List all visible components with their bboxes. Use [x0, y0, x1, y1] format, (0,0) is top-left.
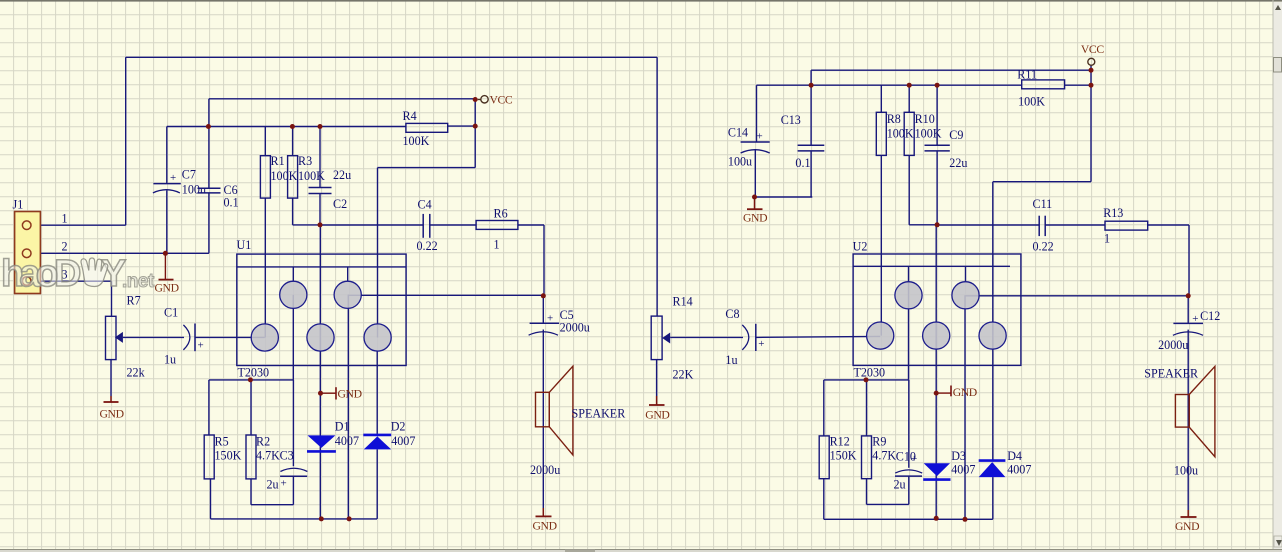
svg-text:GND: GND: [645, 409, 669, 422]
power port VCC left: [473, 93, 513, 106]
label R12: [830, 435, 850, 449]
scrollbar thumb: [1274, 58, 1282, 73]
label C5: [560, 308, 574, 322]
wire C1 to U1 pad1: [195, 336, 265, 338]
label C12: [1200, 309, 1220, 323]
wire R2 bottom to C3: [251, 476, 293, 504]
svg-text:SPEAKER: SPEAKER: [1144, 367, 1199, 381]
svg-text:+: +: [757, 131, 763, 143]
svg-text:R1: R1: [271, 154, 285, 168]
speaker right: [1175, 366, 1215, 456]
svg-text:GND: GND: [1175, 520, 1199, 533]
label T2030 right: [854, 366, 886, 380]
svg-text:C9: C9: [949, 128, 963, 142]
capacitor C4: [423, 214, 430, 238]
label R8: [887, 112, 901, 126]
value 0.1: [224, 196, 239, 210]
value 1u C8: [725, 353, 737, 367]
svg-text:+: +: [547, 313, 553, 325]
ground under R14: [645, 396, 669, 422]
wire 100K bias rail y126: [167, 126, 406, 128]
svg-text:U1: U1: [237, 238, 252, 252]
label D4: [1007, 449, 1022, 463]
value 0.22 C11: [1033, 240, 1054, 254]
svg-text:R6: R6: [494, 207, 508, 221]
svg-text:100K: 100K: [271, 169, 298, 183]
wire R9 top: [866, 380, 868, 436]
svg-text:C1: C1: [164, 306, 178, 320]
ground under speaker right: [1175, 510, 1199, 533]
bottom window border: [0, 549, 1282, 552]
resistor R5: [204, 435, 214, 479]
wire C11 to R13: [1045, 224, 1105, 226]
label C11: [1033, 197, 1053, 211]
ground pin U1: [318, 387, 362, 400]
wire R3 top: [292, 127, 294, 156]
wire VCC rail right lower: [757, 85, 1022, 142]
capacitor C12: [1173, 313, 1203, 335]
svg-text:100u: 100u: [728, 155, 752, 169]
power port VCC right: [1081, 43, 1104, 65]
svg-text:U2: U2: [853, 240, 868, 254]
wire C12 to speaker to GND: [1187, 296, 1189, 510]
svg-text:SPEAKER: SPEAKER: [572, 407, 627, 421]
svg-text:22u: 22u: [333, 168, 351, 182]
value 22u C9: [949, 156, 967, 170]
svg-text:T2030: T2030: [854, 366, 886, 380]
label J1: [13, 198, 24, 212]
svg-text:GND: GND: [155, 282, 179, 295]
label R2: [256, 435, 270, 449]
svg-text:C3: C3: [280, 449, 294, 463]
svg-text:C11: C11: [1033, 197, 1053, 211]
label C10: [896, 450, 916, 464]
value 1 R6: [494, 238, 500, 252]
value 150K: [215, 449, 242, 463]
wire J1 pin 3: [41, 281, 112, 316]
ground under speaker left: [533, 508, 557, 533]
label C7: [182, 168, 196, 182]
resistor R3: [288, 156, 298, 198]
junction rail R10: [907, 83, 912, 88]
wire R1 bottom to U1 pad: [264, 198, 266, 337]
svg-text:C4: C4: [418, 198, 432, 212]
svg-text:4.7K: 4.7K: [256, 449, 280, 463]
svg-text:VCC: VCC: [490, 93, 513, 106]
label C2: [333, 197, 347, 211]
label SPEAKER left: [572, 407, 627, 421]
junction T2030 R9: [864, 377, 869, 382]
svg-text:GND: GND: [533, 520, 557, 533]
svg-text:R13: R13: [1103, 206, 1123, 220]
wire VCC rail right upper: [811, 70, 1091, 85]
svg-text:+: +: [758, 338, 764, 350]
junction rail C6: [206, 124, 211, 129]
svg-text:GND: GND: [953, 386, 977, 399]
junction C2 node: [318, 222, 323, 227]
label C6: [224, 183, 238, 197]
junction bottom D3: [934, 516, 939, 521]
svg-text:C7: C7: [182, 168, 196, 182]
svg-text:100K: 100K: [298, 169, 325, 183]
ground pin U2: [934, 386, 977, 400]
wire top rail J1 pin1 to R14: [126, 57, 657, 316]
value 4007 D2: [391, 434, 415, 448]
junction bottom pad4 right: [963, 517, 968, 522]
potentiometer R14: [651, 316, 670, 360]
wire bottom rail left: [211, 479, 378, 519]
svg-text:100K: 100K: [1018, 95, 1045, 109]
svg-text:J1: J1: [13, 198, 24, 212]
ground under C14: [743, 195, 767, 225]
resistor R8: [876, 112, 886, 155]
wire U1 pad4 to output node: [348, 294, 544, 296]
wire U2 pad4 down: [964, 295, 966, 519]
svg-text:1: 1: [494, 238, 500, 252]
svg-text:4007: 4007: [391, 434, 415, 448]
value 100K R1: [271, 169, 298, 183]
resistor R13: [1105, 221, 1148, 230]
wire J1 pin 2: [41, 252, 209, 254]
capacitor C10: [895, 470, 922, 476]
svg-text:R3: R3: [298, 154, 312, 168]
wire R3 bottom: [293, 198, 320, 225]
resistor R12: [819, 436, 829, 479]
wire C5 to speaker to GND: [542, 296, 544, 508]
svg-text:GND: GND: [743, 212, 767, 225]
wire C14 bottom: [755, 149, 813, 197]
value 2u C3: [267, 478, 279, 492]
svg-text:1: 1: [62, 212, 68, 226]
svg-text:1u: 1u: [725, 353, 737, 367]
watermark haoDIY.net: [1, 253, 155, 295]
connector J1: [15, 212, 41, 294]
label R4: [403, 109, 417, 123]
scrollbar up arrow: [1275, 5, 1281, 10]
svg-text:GND: GND: [100, 408, 124, 421]
junction rail C9: [935, 83, 940, 88]
value 1u: [164, 353, 176, 367]
wire VCC down zigzag to U1 pad5: [378, 100, 476, 338]
svg-text:100K: 100K: [915, 127, 942, 141]
label R14: [673, 295, 693, 309]
svg-text:D1: D1: [335, 420, 350, 434]
svg-text:1: 1: [1104, 232, 1110, 246]
value 1 R13: [1104, 232, 1110, 246]
wire R13 to C12 node: [1148, 225, 1189, 296]
svg-text:22u: 22u: [949, 156, 967, 170]
wire C9 bottom / output node right: [937, 151, 1039, 225]
svg-text:2u: 2u: [894, 477, 906, 491]
svg-text:0.22: 0.22: [417, 239, 438, 253]
wire R10 bottom: [909, 155, 937, 224]
capacitor C7: [153, 172, 181, 193]
junction R4 right: [473, 124, 478, 129]
label U2: [853, 240, 868, 254]
svg-text:+: +: [281, 478, 287, 490]
wire C2 bottom / output node: [320, 194, 423, 226]
wire U1 pad4 stub: [347, 267, 349, 281]
speaker left: [536, 366, 573, 455]
value 22K: [673, 368, 694, 382]
svg-text:R9: R9: [872, 435, 886, 449]
svg-text:4007: 4007: [1007, 463, 1031, 477]
svg-text:R2: R2: [256, 435, 270, 449]
wire VCC rail left: [209, 99, 475, 127]
svg-text:C8: C8: [725, 307, 739, 321]
wire C13 vertical: [810, 85, 812, 197]
svg-text:VCC: VCC: [1081, 43, 1104, 56]
label R13: [1103, 206, 1123, 220]
wire U2 pad4 to C12 node: [966, 295, 1189, 297]
wire C7 top: [166, 127, 168, 184]
svg-text:R11: R11: [1017, 67, 1037, 81]
ground under J1 pin2: [155, 251, 179, 295]
capacitor C6: [198, 188, 221, 193]
value 100K R10: [915, 127, 942, 141]
svg-text:T2030: T2030: [238, 366, 270, 380]
wire R14 wiper to C8: [670, 336, 743, 338]
pin number 2: [62, 240, 68, 254]
svg-text:22k: 22k: [127, 366, 146, 380]
svg-text:GND: GND: [338, 388, 362, 401]
svg-text:haoD: haoD: [1, 253, 80, 295]
value 100u C14: [728, 155, 752, 169]
label C3: [280, 449, 294, 463]
wire U2 pad2 vertical through D3: [935, 225, 937, 519]
label R3: [298, 154, 312, 168]
wire C9 top: [936, 85, 938, 145]
junction bottom D1: [319, 516, 324, 521]
value 100K R3: [298, 169, 325, 183]
value 0.22: [417, 239, 438, 253]
capacitor C5: [529, 313, 560, 336]
svg-text:150K: 150K: [830, 448, 857, 462]
capacitor C9: [925, 145, 950, 151]
top window border: [0, 0, 1282, 2]
label R9: [872, 435, 886, 449]
svg-text:100u: 100u: [182, 183, 206, 197]
wire U1 pad2 vertical through D1: [319, 225, 321, 519]
capacitor C13: [798, 145, 825, 151]
svg-text:R10: R10: [915, 112, 935, 126]
label R1: [271, 154, 285, 168]
potentiometer R7: [106, 316, 123, 359]
svg-text:0.1: 0.1: [795, 156, 810, 170]
svg-text:R12: R12: [830, 435, 850, 449]
svg-text:D2: D2: [391, 420, 406, 434]
wire zigzag to U2 pad5: [993, 182, 1091, 336]
wire C10 top: [908, 380, 910, 468]
wire U1 pad3 stub: [292, 267, 294, 281]
value 2000u C5: [560, 321, 590, 335]
resistor R4: [406, 123, 448, 132]
value 2u C10: [894, 477, 906, 491]
junction rail R3: [290, 124, 295, 129]
svg-text:C13: C13: [781, 113, 801, 127]
wire J1 pin 1: [41, 224, 126, 226]
capacitor C11: [1039, 216, 1045, 236]
svg-text:22K: 22K: [673, 368, 694, 382]
resistor R1: [260, 156, 270, 198]
junction rail C13: [809, 83, 814, 88]
label C9: [949, 128, 963, 142]
wire C2 top: [319, 127, 321, 188]
capacitor C1: [183, 324, 203, 352]
svg-text:C12: C12: [1200, 309, 1220, 323]
value 4007 D3: [951, 463, 975, 477]
wire R8 bottom to U2 pad1b: [880, 155, 882, 335]
wire R4 right to VCC: [448, 125, 476, 127]
junction C12 node: [1186, 293, 1191, 298]
pin number 1: [62, 212, 68, 226]
wire C7 bottom: [166, 191, 168, 254]
wire C4 to R6: [430, 224, 476, 226]
label C14: [728, 126, 748, 140]
pin number 3: [62, 268, 68, 282]
value 22u C2: [333, 168, 351, 182]
svg-text:.net: .net: [122, 271, 155, 292]
value 2000u C12: [1158, 338, 1188, 352]
svg-text:R8: R8: [887, 112, 901, 126]
wire R2 top: [250, 380, 252, 435]
svg-text:4007: 4007: [335, 434, 359, 448]
label D3: [951, 449, 966, 463]
stray value 2000u: [530, 463, 560, 477]
label R5: [215, 435, 229, 449]
svg-text:2u: 2u: [267, 478, 279, 492]
svg-text:100u: 100u: [1174, 464, 1198, 478]
value 22k: [127, 366, 146, 380]
wire R7 bottom: [110, 360, 112, 396]
svg-text:D3: D3: [951, 449, 966, 463]
svg-text:+: +: [1192, 313, 1198, 325]
value 4.7K R9: [872, 448, 896, 462]
svg-text:100K: 100K: [403, 134, 430, 148]
stray value 100u: [1174, 464, 1198, 478]
value 150K R12: [830, 448, 857, 462]
resistor R11: [1022, 80, 1065, 89]
svg-text:C14: C14: [728, 126, 748, 140]
wire C8 to U2 pad1: [756, 336, 880, 337]
wire C3 top: [292, 380, 294, 466]
svg-text:R7: R7: [127, 294, 141, 308]
svg-text:4.7K: 4.7K: [872, 448, 896, 462]
label D1: [335, 420, 350, 434]
wire R1 top: [264, 127, 266, 156]
wire U2 pad3 stub: [965, 266, 967, 281]
value 4.7K: [256, 449, 280, 463]
diode D1: [307, 435, 336, 451]
value 0.1 C13: [795, 156, 810, 170]
wire bottom rail right: [824, 479, 993, 520]
junction T2030 R2: [248, 377, 253, 382]
capacitor C3: [280, 468, 307, 476]
svg-text:2000u: 2000u: [560, 321, 590, 335]
label D2: [391, 420, 406, 434]
label R11: [1017, 67, 1037, 81]
wire R9 bottom to C10: [867, 476, 909, 504]
plus C10: [911, 453, 917, 465]
label C8: [725, 307, 739, 321]
svg-text:D4: D4: [1007, 449, 1022, 463]
junction rail C2: [318, 124, 323, 129]
wire VCC right vertical: [1090, 65, 1092, 182]
wire D4 vertical: [992, 336, 994, 520]
svg-text:1u: 1u: [164, 353, 176, 367]
label R7: [127, 294, 141, 308]
capacitor C14: [741, 131, 770, 154]
junction C9 node: [935, 222, 940, 227]
diode D4: [979, 461, 1006, 478]
label C1: [164, 306, 178, 320]
svg-text:+: +: [911, 453, 917, 465]
svg-text:0.22: 0.22: [1033, 240, 1054, 254]
wire R14 bottom: [656, 360, 658, 396]
svg-text:C2: C2: [333, 197, 347, 211]
wire R8 top: [880, 85, 882, 112]
resistor R9: [862, 436, 872, 479]
junction C5 node: [541, 293, 546, 298]
svg-text:100K: 100K: [887, 127, 914, 141]
plus C3: [281, 478, 287, 490]
wire R11 right to VCC: [1065, 84, 1091, 86]
label SPEAKER right: [1144, 367, 1199, 381]
capacitor C2: [309, 188, 332, 194]
label R6: [494, 207, 508, 221]
diode D3: [923, 463, 950, 479]
value 100K R4: [403, 134, 430, 148]
value 4007 D4: [1007, 463, 1031, 477]
resistor R10: [904, 112, 914, 155]
svg-text:R5: R5: [215, 435, 229, 449]
resistor R2: [246, 435, 256, 479]
svg-text:+: +: [198, 340, 204, 352]
svg-text:R4: R4: [403, 109, 417, 123]
svg-text:2: 2: [62, 240, 68, 254]
value 100K R8: [887, 127, 914, 141]
svg-text:4007: 4007: [951, 463, 975, 477]
op-amp chip U1 T2030: [237, 254, 406, 365]
value 4007 D1: [335, 434, 359, 448]
label R10: [915, 112, 935, 126]
op-amp chip U2 T2030: [853, 254, 1021, 365]
junction VCC right rail2: [1089, 83, 1094, 88]
junction VCC right rail1: [1089, 68, 1094, 73]
diode D2: [363, 435, 391, 450]
label C4: [418, 198, 432, 212]
junction bottom pad4: [347, 516, 352, 521]
wire T2030 node right: [824, 266, 909, 436]
svg-text:2000u: 2000u: [530, 463, 560, 477]
wire R6 to C5 node: [518, 225, 544, 296]
right scrollbar track: [1273, 0, 1282, 552]
label C13: [781, 113, 801, 127]
resistor R6: [476, 221, 518, 230]
wire C6 vertical: [208, 127, 210, 254]
label U1: [237, 238, 252, 252]
label T2030: [238, 366, 270, 380]
wire R10 top: [908, 85, 910, 112]
wire D2 vertical: [376, 350, 378, 519]
svg-text:2000u: 2000u: [1158, 338, 1188, 352]
scrollbar down arrow: [1274, 536, 1282, 547]
ground under R7: [100, 396, 124, 421]
svg-text:R14: R14: [673, 295, 693, 309]
value 100u: [182, 183, 206, 197]
wire U1 pad4 down: [347, 295, 349, 519]
value 100K R11: [1018, 95, 1045, 109]
